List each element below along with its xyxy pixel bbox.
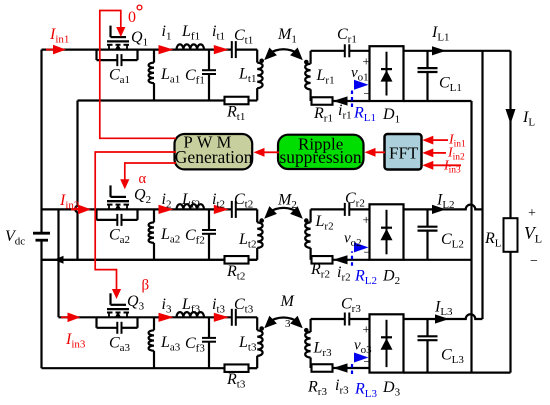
arrow: current i1 bbox=[159, 45, 174, 54]
diode rectifier D3 bbox=[370, 314, 404, 372]
svg-text:Q2: Q2 bbox=[134, 187, 151, 207]
label i_t3 bbox=[212, 296, 226, 316]
svg-text:vo2: vo2 bbox=[344, 231, 362, 250]
wire: secondary top (branch 1) bbox=[311, 50, 370, 52]
wire: secondary top (branch 3) bbox=[311, 318, 370, 320]
wire: branch-1 output bottom bbox=[404, 100, 472, 102]
label C_t3 bbox=[234, 296, 254, 316]
svg-text:D2: D2 bbox=[382, 268, 400, 288]
svg-text:IL1: IL1 bbox=[431, 24, 450, 44]
inductor L_a2 bbox=[149, 209, 154, 259]
label i_r2 bbox=[337, 264, 351, 284]
label L_r2 bbox=[315, 213, 334, 233]
label I_L2 bbox=[436, 192, 455, 212]
svg-text:α: α bbox=[139, 171, 147, 187]
label C_L1 bbox=[439, 75, 462, 95]
svg-text:D1: D1 bbox=[382, 106, 400, 126]
svg-text:Lf1: Lf1 bbox=[181, 23, 200, 43]
arrow: input current I_in1 bbox=[46, 45, 66, 55]
svg-text:Rt1: Rt1 bbox=[226, 104, 245, 124]
svg-text:+: + bbox=[363, 322, 370, 337]
block: PWM Generation bbox=[175, 133, 253, 170]
svg-text:0: 0 bbox=[128, 9, 136, 26]
arrow: return current (left) on y=260 wire bbox=[54, 256, 64, 264]
label R_t2 bbox=[226, 263, 245, 283]
label D3 bbox=[382, 379, 401, 399]
svg-text:+: + bbox=[363, 212, 370, 227]
svg-text:M2: M2 bbox=[277, 192, 297, 212]
label + (load polarity) bbox=[528, 206, 536, 221]
svg-text:Cf2: Cf2 bbox=[185, 227, 205, 247]
label R_r2 bbox=[310, 261, 330, 281]
svg-text:Q3: Q3 bbox=[127, 293, 145, 313]
transformer coupling M1 arrow bbox=[264, 48, 303, 61]
svg-text:+: + bbox=[528, 206, 536, 221]
inductor L_r3 (transformer secondary) bbox=[305, 319, 310, 368]
wire: secondary bottom (branch 1) bbox=[311, 100, 370, 102]
label i2 bbox=[162, 191, 172, 211]
label alpha bbox=[139, 171, 147, 187]
inductor L_f2 bbox=[177, 204, 205, 209]
wire: branch-1 main horizontal bbox=[42, 48, 258, 50]
svg-text:−: − bbox=[364, 244, 371, 259]
svg-text:Lr1: Lr1 bbox=[316, 67, 335, 87]
diode rectifier D2 bbox=[370, 204, 404, 259]
transistor Q1 bbox=[107, 26, 129, 50]
wire: secondary bottom (branch 3) bbox=[311, 367, 370, 369]
label C_t2 bbox=[234, 191, 253, 211]
resistor R_t3 bbox=[225, 364, 249, 372]
label I_L1 bbox=[431, 24, 450, 44]
label C_L2 bbox=[441, 231, 464, 251]
voltage source Vdc bbox=[5, 228, 50, 248]
label D1 bbox=[382, 106, 400, 126]
label i1 bbox=[162, 23, 172, 43]
label v_o3 bbox=[354, 338, 372, 357]
label i3 bbox=[162, 296, 172, 316]
arrow: current i_t3 bbox=[214, 313, 229, 322]
arrow: load current I_L2 bbox=[432, 205, 446, 214]
arrow: I_in3 into FFT (red) bbox=[422, 161, 461, 170]
svg-text:Cf1: Cf1 bbox=[185, 67, 205, 87]
label L_f2 bbox=[181, 191, 200, 211]
svg-text:Lf3: Lf3 bbox=[181, 296, 201, 316]
label I_in3 (FFT input) bbox=[443, 159, 461, 176]
svg-text:Rt2: Rt2 bbox=[226, 263, 245, 283]
svg-text:RL: RL bbox=[484, 230, 502, 250]
arrow: R_L1 reference (blue dashed) bbox=[352, 80, 369, 107]
capacitor C_L3 bbox=[418, 319, 438, 373]
label + (output polarity 3) bbox=[363, 322, 370, 337]
winding dot (primary 3) bbox=[259, 326, 264, 331]
label v_o1 bbox=[351, 65, 369, 84]
svg-text:Ct3: Ct3 bbox=[234, 296, 254, 316]
svg-text:IL2: IL2 bbox=[436, 192, 455, 212]
label I_in1 bbox=[49, 26, 69, 46]
label i_r1 bbox=[338, 102, 352, 122]
svg-text:IL: IL bbox=[522, 109, 535, 129]
capacitor C_t1 bbox=[232, 41, 236, 58]
svg-text:Iin2: Iin2 bbox=[59, 192, 79, 212]
svg-text:Ct1: Ct1 bbox=[234, 27, 253, 47]
svg-text:Cr3: Cr3 bbox=[341, 296, 361, 316]
svg-text:Ca3: Ca3 bbox=[109, 334, 131, 354]
transformer coupling M2 arrow bbox=[264, 206, 303, 219]
svg-text:i2: i2 bbox=[162, 191, 172, 211]
svg-text:3: 3 bbox=[285, 318, 291, 330]
label M2 bbox=[277, 192, 297, 212]
svg-text:M: M bbox=[280, 293, 296, 310]
wire: plus rail (x=482.5) bbox=[481, 51, 483, 319]
capacitor C_f2 bbox=[202, 209, 216, 259]
label D2 bbox=[382, 268, 400, 288]
wire: minus rail (x=471.5) bbox=[470, 101, 472, 373]
svg-text:La2: La2 bbox=[160, 226, 180, 246]
wire: branch-1 output top bbox=[404, 50, 511, 52]
svg-text:it3: it3 bbox=[212, 296, 226, 316]
svg-text:Lr3: Lr3 bbox=[313, 340, 333, 360]
label I_in2 (FFT input) bbox=[447, 146, 465, 163]
wire: branch-3 bottom horizontal bbox=[42, 367, 258, 369]
svg-text:La3: La3 bbox=[160, 334, 181, 354]
transformer coupling M3 arrow bbox=[264, 316, 303, 329]
svg-text:Vdc: Vdc bbox=[5, 228, 25, 248]
arrow: rectifier input current i_r1 bbox=[333, 96, 348, 105]
label i_t1 bbox=[212, 23, 225, 43]
diode rectifier D1 bbox=[370, 46, 404, 101]
svg-text:CL3: CL3 bbox=[441, 347, 464, 367]
arrow: I_in2 into FFT (red) bbox=[422, 149, 446, 158]
resistor R_L bbox=[504, 218, 518, 252]
label C_a3 bbox=[109, 334, 131, 354]
svg-text:Lf2: Lf2 bbox=[181, 191, 200, 211]
capacitor C_r1 bbox=[345, 44, 350, 57]
arrow: FFT to Ripple suppression (red) bbox=[365, 148, 386, 157]
svg-text:it2: it2 bbox=[212, 191, 225, 211]
inductor L_r2 (transformer secondary) bbox=[305, 209, 310, 259]
wire: branch-2/3 feed vertical x=58.5 bbox=[57, 209, 59, 317]
svg-text:−: − bbox=[530, 254, 538, 269]
winding dot (secondary 3) bbox=[304, 328, 309, 333]
block: Ripple suppression bbox=[278, 135, 364, 170]
label M (branch 3) bbox=[280, 293, 296, 310]
label R_r1 bbox=[313, 105, 333, 125]
svg-text:CL2: CL2 bbox=[441, 231, 464, 251]
svg-text:Lr2: Lr2 bbox=[315, 213, 334, 233]
wire: branch-2 output bottom bbox=[404, 259, 472, 261]
inductor L_a3 bbox=[149, 317, 154, 368]
label I_L bbox=[522, 109, 535, 129]
wire: gate drive to Q1 (red) bbox=[100, 11, 176, 139]
svg-text:Iin1: Iin1 bbox=[49, 26, 69, 46]
label i_t2 bbox=[212, 191, 225, 211]
svg-text:i3: i3 bbox=[162, 296, 172, 316]
inductor L_a1 bbox=[149, 50, 154, 101]
svg-text:Ca2: Ca2 bbox=[109, 226, 130, 246]
label L_f1 bbox=[181, 23, 200, 43]
resistor R_t2 bbox=[225, 256, 249, 264]
inductor L_r1 (transformer secondary) bbox=[305, 51, 310, 101]
inductor L_t2 (transformer primary) bbox=[257, 209, 262, 259]
capacitor C_t3 bbox=[232, 309, 236, 326]
label L_r1 bbox=[316, 67, 335, 87]
wire: bottom bus to load bbox=[404, 372, 511, 374]
wire: branch-3 main lead-in corner bbox=[57, 316, 59, 318]
inductor L_f3 bbox=[177, 312, 205, 317]
svg-text:β: β bbox=[142, 278, 150, 294]
svg-text:D3: D3 bbox=[382, 379, 401, 399]
arrow: rectifier input current i_r3 bbox=[333, 363, 348, 372]
transistor Q3 bbox=[107, 293, 129, 318]
wire: branch-2 main horizontal bbox=[42, 208, 258, 210]
wire: load rail top corner + right vertical bbox=[509, 51, 511, 373]
arrow: rectifier input current i_r2 bbox=[333, 255, 348, 264]
label C_a2 bbox=[109, 226, 130, 246]
svg-text:CL1: CL1 bbox=[439, 75, 462, 95]
svg-text:RL1: RL1 bbox=[353, 105, 376, 125]
svg-text:+: + bbox=[363, 53, 370, 68]
svg-text:suppression: suppression bbox=[280, 147, 362, 167]
label L_a2 bbox=[160, 226, 180, 246]
svg-text:it1: it1 bbox=[212, 23, 225, 43]
capacitor C_L2 bbox=[418, 209, 438, 259]
label C_a1 bbox=[109, 67, 130, 87]
label i_r3 bbox=[335, 377, 349, 397]
capacitor C_r3 bbox=[345, 313, 350, 326]
wire: gate drive to Q2 (red) bbox=[120, 163, 176, 189]
svg-text:i1: i1 bbox=[162, 23, 172, 43]
winding dot (primary 2) bbox=[259, 218, 264, 223]
label R_L2 bbox=[354, 268, 377, 288]
svg-text:Rr1: Rr1 bbox=[313, 105, 333, 125]
label 3 (subscript of M) bbox=[285, 318, 291, 330]
label - (output polarity 3) bbox=[364, 354, 371, 369]
label - (output polarity 2) bbox=[364, 244, 371, 259]
svg-text:IL3: IL3 bbox=[434, 299, 453, 319]
arrow: current i_t1 bbox=[214, 45, 229, 54]
label L_r3 bbox=[313, 340, 333, 360]
label C_f2 bbox=[185, 227, 205, 247]
label V_L bbox=[524, 223, 542, 246]
label + (output polarity 2) bbox=[363, 212, 370, 227]
label v_o2 bbox=[344, 231, 362, 250]
svg-text:FFT: FFT bbox=[389, 144, 419, 163]
arrow: current i3 bbox=[159, 313, 174, 322]
capacitor C_a3 bbox=[97, 317, 138, 334]
svg-text:Ca1: Ca1 bbox=[109, 67, 130, 87]
svg-text:Ct2: Ct2 bbox=[234, 191, 253, 211]
label - (output polarity 1) bbox=[364, 86, 371, 101]
label + (output polarity 1) bbox=[363, 53, 370, 68]
label C_t1 bbox=[234, 27, 253, 47]
svg-text:Lt1: Lt1 bbox=[238, 66, 256, 86]
arrow: input current I_in2 bbox=[71, 205, 91, 215]
label C_r1 bbox=[337, 26, 357, 46]
svg-text:Cr2: Cr2 bbox=[345, 190, 365, 210]
label - (load polarity) bbox=[530, 254, 538, 269]
label R_r3 bbox=[307, 379, 327, 399]
winding dot (primary 1) bbox=[259, 59, 264, 64]
svg-text:La1: La1 bbox=[160, 66, 180, 86]
arrow: Ripple suppression to PWM (red) bbox=[254, 148, 280, 157]
wire: Vdc positive rail (left vertical) bbox=[40, 50, 42, 369]
inductor L_t3 (transformer primary) bbox=[257, 317, 262, 368]
wire: secondary top (branch 2) bbox=[311, 208, 370, 210]
label Q2 bbox=[134, 187, 151, 207]
arrow: load current I_L1 bbox=[432, 46, 446, 55]
svg-text:ir2: ir2 bbox=[337, 264, 351, 284]
wire: secondary bottom (branch 2) bbox=[311, 259, 370, 261]
capacitor C_t2 bbox=[232, 201, 236, 218]
label Q1 bbox=[131, 29, 148, 49]
label M1 bbox=[277, 26, 297, 46]
label C_L3 bbox=[441, 347, 464, 367]
label C_r3 bbox=[341, 296, 361, 316]
svg-text:Iin3: Iin3 bbox=[65, 331, 86, 351]
label I_in2 bbox=[59, 192, 79, 212]
capacitor C_a2 bbox=[97, 209, 138, 226]
label R_t1 bbox=[226, 104, 245, 124]
resistor R_r2 bbox=[312, 256, 333, 264]
winding dot (secondary 2) bbox=[304, 218, 309, 223]
capacitor C_L1 bbox=[418, 51, 438, 101]
arrow: I_in1 into FFT (red) bbox=[422, 136, 448, 145]
label L_a1 bbox=[160, 66, 180, 86]
label C_r2 bbox=[345, 190, 365, 210]
label L_t1 bbox=[238, 66, 256, 86]
svg-text:−: − bbox=[364, 354, 371, 369]
label L_f3 bbox=[181, 296, 201, 316]
arrow: current i2 bbox=[159, 205, 174, 214]
svg-text:Lt3: Lt3 bbox=[238, 334, 257, 354]
label Q3 bbox=[127, 293, 145, 313]
block: FFT bbox=[385, 134, 422, 170]
resistor R_t1 bbox=[225, 97, 249, 105]
wire: branch-2 output top (hop over minus rail) bbox=[404, 205, 483, 210]
label R_L3 bbox=[354, 381, 378, 401]
inductor L_f1 bbox=[177, 44, 205, 49]
wire: return wire y=260 from rail bbox=[42, 259, 258, 261]
svg-text:−: − bbox=[364, 86, 371, 101]
svg-text:Lt2: Lt2 bbox=[238, 231, 256, 251]
arrow: R_L3 reference (blue dashed) bbox=[352, 353, 369, 375]
arrow: current i_t2 bbox=[214, 205, 229, 214]
svg-text:ir1: ir1 bbox=[338, 102, 352, 122]
wire: branch-1 bottom return via vertical x=77.5 (hop over branch-2 wire) bbox=[75, 101, 77, 260]
label I_L3 bbox=[434, 299, 453, 319]
label R_t3 bbox=[226, 371, 246, 391]
svg-text:Q1: Q1 bbox=[131, 29, 148, 49]
label C_f1 bbox=[185, 67, 205, 87]
arrow: total load current I_L bbox=[506, 109, 516, 124]
label R_L1 bbox=[353, 105, 376, 125]
resistor R_r1 bbox=[312, 97, 333, 105]
svg-text:M1: M1 bbox=[277, 26, 297, 46]
label beta bbox=[142, 278, 150, 294]
resistor R_r3 bbox=[312, 364, 333, 372]
label R_L bbox=[484, 230, 502, 250]
label C_f3 bbox=[185, 335, 205, 355]
svg-text:RL2: RL2 bbox=[354, 268, 377, 288]
capacitor C_f1 bbox=[202, 50, 216, 101]
wire: branch-2 bottom horizontal bbox=[42, 259, 258, 261]
svg-text:RL3: RL3 bbox=[354, 381, 378, 401]
svg-text:VL: VL bbox=[524, 223, 542, 246]
arrow: R_L2 reference (blue dashed) bbox=[352, 242, 369, 265]
capacitor C_r2 bbox=[345, 203, 350, 216]
label 0 degrees bbox=[128, 5, 142, 26]
arrow: load current I_L3 bbox=[435, 314, 449, 323]
arrow: input current I_in3 bbox=[61, 313, 81, 323]
svg-text:Rt3: Rt3 bbox=[226, 371, 246, 391]
wire: gate drive to Q3 (red) bbox=[95, 152, 176, 299]
wire: branch-1 bottom horizontal bbox=[78, 99, 258, 101]
wire: branch-3 output top (hop over minus rail) bbox=[404, 314, 483, 319]
label I_in3 bbox=[65, 331, 86, 351]
svg-text:ir3: ir3 bbox=[335, 377, 349, 397]
capacitor C_f3 bbox=[202, 317, 216, 368]
label L_t2 bbox=[238, 231, 256, 251]
label L_a3 bbox=[160, 334, 181, 354]
wire: branch-3 main horizontal bbox=[59, 316, 258, 318]
svg-text:Cr1: Cr1 bbox=[337, 26, 357, 46]
transistor Q2 bbox=[107, 185, 129, 210]
label L_t3 bbox=[238, 334, 257, 354]
label I_in1 (FFT input) bbox=[448, 133, 466, 150]
svg-text:Rr3: Rr3 bbox=[307, 379, 327, 399]
winding dot (secondary 1) bbox=[304, 60, 309, 65]
inductor L_t1 (transformer primary) bbox=[257, 50, 262, 101]
capacitor C_a1 bbox=[97, 50, 138, 67]
svg-text:Generation: Generation bbox=[175, 147, 253, 167]
